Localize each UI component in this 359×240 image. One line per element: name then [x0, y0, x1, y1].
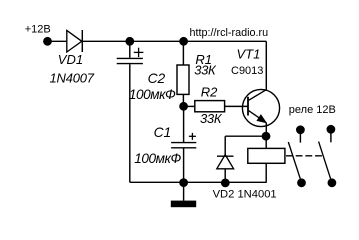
wire top rail VD1 cathode to collector: [82, 40, 266, 42]
relay contact 1 top terminal: [296, 125, 305, 142]
diode VD1: [67, 30, 83, 52]
transistor VT1: [242, 89, 279, 126]
svg-text:реле 12В: реле 12В: [289, 104, 336, 116]
node junction emitter / relay / VD2: [262, 132, 271, 141]
node junction R1 / R2 / C1: [179, 102, 188, 111]
svg-text:VD1: VD1: [58, 52, 83, 67]
resistor R1: [177, 41, 189, 106]
svg-text:R2: R2: [201, 84, 218, 99]
capacitor C1: [171, 106, 196, 182]
svg-text:100мкФ: 100мкФ: [134, 151, 181, 166]
diode VD2: [217, 136, 234, 182]
resistor R2: [184, 101, 248, 112]
svg-text:100мкФ: 100мкФ: [129, 87, 176, 102]
node junction bottom rail / ground: [179, 178, 188, 187]
mechanical link dashed: [286, 155, 325, 157]
svg-text:1N4007: 1N4007: [50, 70, 95, 85]
capacitor C2: [117, 41, 144, 182]
svg-text:C9013: C9013: [231, 65, 263, 77]
node +12V input terminal: [25, 24, 52, 46]
node junction top rail / C2: [125, 37, 134, 46]
svg-text:C1: C1: [154, 125, 172, 140]
node junction top rail / R1: [179, 37, 188, 46]
wire terminal to VD1 anode: [48, 40, 67, 42]
wire emitter down: [265, 123, 267, 136]
wire bottom rail: [130, 181, 267, 183]
svg-text:+12В: +12В: [25, 24, 51, 36]
relay coil K1: [248, 136, 285, 182]
wire emitter node to VD2 cathode: [225, 135, 266, 137]
relay contact 2 top terminal: [327, 125, 336, 142]
svg-text:33К: 33К: [194, 63, 217, 78]
svg-text:C2: C2: [148, 71, 166, 86]
svg-text:VD2 1N4001: VD2 1N4001: [213, 189, 277, 201]
ground: [171, 183, 196, 208]
svg-text:http://rcl-radio.ru: http://rcl-radio.ru: [190, 27, 269, 39]
node junction bottom rail / VD2 anode: [221, 179, 230, 188]
relay contact 1 blade and bottom terminal: [288, 142, 306, 187]
svg-text:33К: 33К: [200, 111, 223, 126]
wire collector to top rail: [265, 41, 267, 89]
svg-text:VT1: VT1: [237, 47, 261, 62]
relay contact 2 blade and bottom terminal: [319, 142, 337, 188]
